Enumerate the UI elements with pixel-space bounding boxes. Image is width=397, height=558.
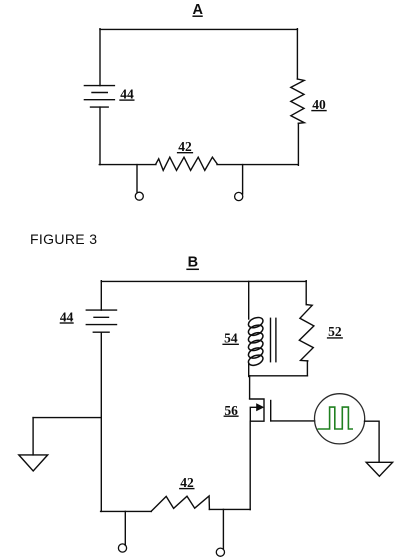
wire left-lower A <box>99 107 101 165</box>
wire left-upper A <box>99 29 101 86</box>
terminal T3 (B left) <box>124 511 126 545</box>
pulse source V1 waveform <box>318 407 352 429</box>
svg-text:42: 42 <box>178 139 192 154</box>
svg-text:52: 52 <box>328 324 342 339</box>
wire below R52 <box>306 361 308 376</box>
wire bottom-right B <box>209 508 250 510</box>
label 54 <box>224 331 238 346</box>
wire bottom-right A <box>217 164 298 166</box>
svg-text:54: 54 <box>224 331 238 346</box>
resistor R40 <box>291 79 305 123</box>
wire top A <box>100 28 297 30</box>
svg-text:B: B <box>188 255 198 271</box>
svg-text:40: 40 <box>312 97 326 112</box>
wire parallel-connect <box>249 375 308 377</box>
wire inductor-branch top <box>248 281 250 319</box>
resistor R52 <box>299 305 314 361</box>
wire bottom-left A <box>99 164 156 166</box>
inductor L54 coil <box>247 315 265 367</box>
wire pulse to ground <box>365 421 380 462</box>
caption FIGURE 3 <box>30 231 97 247</box>
label 42 (A) <box>178 139 192 154</box>
svg-text:44: 44 <box>120 86 134 101</box>
ground G2 (right) <box>366 462 392 476</box>
inductor L54 core lines <box>270 318 272 361</box>
transistor Q56 (MOSFET) <box>250 399 271 421</box>
wire top B <box>101 280 306 282</box>
label 44 (A) <box>120 86 134 101</box>
wire right-lower A <box>297 123 299 165</box>
wire left-upper B <box>100 281 102 310</box>
resistor R42 (A) <box>156 157 217 170</box>
label 42 (B) <box>180 475 194 490</box>
wire ground-branch vertical <box>32 418 34 455</box>
svg-text:FIGURE 3: FIGURE 3 <box>30 231 97 247</box>
wire left-mid B <box>100 332 102 511</box>
label 40 <box>312 97 326 112</box>
svg-text:42: 42 <box>180 475 194 490</box>
label A <box>193 2 204 18</box>
wire inductor-bottom <box>248 364 250 377</box>
resistor R42 (B) <box>151 496 209 511</box>
label 52 <box>328 324 342 339</box>
wire bottom-left B <box>101 510 152 512</box>
wire source vertical <box>249 421 251 509</box>
wire right-upper A <box>296 29 298 79</box>
terminal T2 (A right) <box>242 165 244 194</box>
wire gate lead <box>271 420 315 422</box>
wire drain vertical <box>249 376 251 399</box>
label 44 (B) <box>60 309 74 324</box>
pulse source V1 circle <box>315 394 365 444</box>
wire ground-branch horizontal <box>33 417 101 419</box>
label B <box>188 255 198 271</box>
battery 44 (B) <box>86 310 116 332</box>
terminal T4 (B right) <box>222 509 224 548</box>
label 56 <box>224 403 238 418</box>
svg-text:44: 44 <box>60 309 74 324</box>
wire right-upper B <box>305 281 307 305</box>
ground G1 (left) <box>19 455 48 471</box>
terminal T1 (A left) <box>136 165 138 192</box>
battery 44 (A) <box>84 86 114 108</box>
